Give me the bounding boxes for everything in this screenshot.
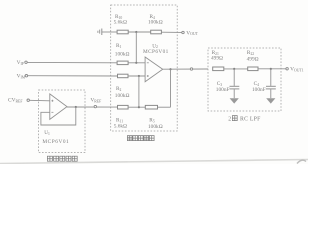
page curl artifact bottom right [297, 160, 306, 163]
resistor R4 body [151, 30, 162, 34]
wire: output junction down to bottom feedback row [170, 69, 172, 107]
svg-text:100kΩ: 100kΩ [115, 52, 130, 58]
svg-text:5.6kΩ: 5.6kΩ [114, 123, 127, 129]
svg-text:499Ω: 499Ω [247, 57, 259, 63]
op-amp U2 triangle [145, 57, 163, 82]
node: bottom row junction [138, 106, 140, 108]
resistor R1 body [117, 61, 128, 65]
node: LPF second junction [270, 68, 272, 70]
terminal: input V_IP [25, 61, 27, 63]
caption: 2阶 RC LPF [228, 116, 261, 123]
resistor R2 body [118, 74, 129, 78]
svg-text:MCP6V01: MCP6V01 [143, 49, 169, 55]
dashed box: 2nd order RC LPF stage [208, 48, 281, 111]
op-amp U1 plus mark [51, 100, 53, 102]
op-amp U2 plus mark [147, 75, 149, 77]
wire: R11 to bottom node [128, 106, 145, 108]
svg-text:R5: R5 [149, 118, 155, 124]
wire: R5 right end to feedback vertical [158, 106, 171, 108]
node: inverting input junction [135, 62, 137, 64]
node: output junction [169, 68, 171, 70]
svg-text:VIP: VIP [17, 60, 24, 66]
svg-text:MCP6V01: MCP6V01 [42, 139, 69, 145]
node: top feedback junction [135, 31, 137, 33]
wire: non-inverting node down to bottom row node [138, 76, 140, 107]
terminal: input CV_REF [27, 99, 29, 101]
caption: 缓冲放大器 (buffer amplifier) fake CJK glyph blobs [47, 156, 77, 161]
node: buffer feedback tap [75, 106, 77, 108]
terminal: input V_IM [25, 75, 27, 77]
resistor R21 body (LPF) [213, 67, 224, 71]
dashed box: buffer amplifier stage [39, 90, 86, 153]
svg-text:R2: R2 [116, 86, 122, 92]
op-amp U1 triangle (buffer) [50, 94, 67, 120]
svg-text:RC LPF: RC LPF [240, 117, 261, 123]
svg-text:2: 2 [228, 117, 231, 123]
wire: R10 to node [128, 31, 151, 33]
node: LPF first junction [233, 68, 235, 70]
terminal: output V_OUT1 [286, 68, 288, 70]
wire: R22 to output terminal [258, 68, 286, 70]
wire: node down to inverting input line [135, 32, 137, 63]
wire: ground to R10 [102, 31, 117, 33]
resistor R11 body [118, 105, 129, 109]
resistor R22 body (LPF) [248, 67, 258, 71]
svg-text:VOUT: VOUT [186, 30, 198, 36]
svg-text:100nF: 100nF [216, 87, 230, 93]
svg-text:VOUT1: VOUT1 [290, 67, 304, 73]
svg-text:U1: U1 [44, 130, 50, 136]
svg-text:5.6kΩ: 5.6kΩ [114, 19, 127, 25]
wire: R1 to op-amp inverting input [128, 62, 145, 64]
wire: V_IP input line [27, 61, 117, 63]
svg-text:100kΩ: 100kΩ [115, 93, 130, 99]
terminal: VOUT (feedback net) [182, 31, 184, 33]
svg-text:100kΩ: 100kΩ [148, 19, 163, 25]
wire: V_REF line from buffer into diff box [67, 106, 118, 108]
dashed box: difference amplifier stage [111, 5, 178, 131]
caption: 差分放大器 (differential amplifier) fake CJK glyph blobs [47, 136, 154, 162]
wire: R21 to R22 [224, 68, 248, 70]
svg-text:CVREF: CVREF [8, 97, 22, 103]
wire: R2 to op-amp non-inverting input [128, 75, 145, 77]
wire: R4 to VOUT terminal [161, 31, 181, 33]
node: non-inverting input junction [138, 75, 140, 77]
resistor R10 body [117, 30, 128, 34]
ground (filled triangle) below C3 [230, 98, 239, 103]
wire: CV_REF to buffer non-inverting input [29, 99, 49, 102]
capacitor C4 [266, 69, 276, 98]
terminal: V_REF node circle [94, 105, 96, 107]
wire: op-amp output [163, 68, 208, 70]
resistor R5 body [145, 105, 157, 109]
wire: V_IM input line [28, 75, 118, 77]
svg-text:100nF: 100nF [252, 87, 266, 93]
op-amp U2 minus mark [147, 62, 149, 64]
wire: buffer feedback loop [41, 107, 76, 125]
svg-text:R1: R1 [116, 43, 122, 49]
ground (filled triangle) below C4 [266, 98, 275, 103]
ground (sideways earth) top-left [98, 29, 102, 36]
svg-text:VREF: VREF [90, 97, 101, 103]
capacitor C3 [230, 69, 240, 98]
svg-text:VIM: VIM [17, 74, 26, 80]
svg-text:R22: R22 [247, 50, 254, 56]
op-amp U1 minus mark [51, 111, 53, 113]
svg-text:100kΩ: 100kΩ [148, 124, 163, 130]
terminal: output node circle [190, 68, 192, 70]
svg-text:499Ω: 499Ω [211, 56, 223, 62]
wire: bottom page artifact diagonal smudge [0, 160, 308, 164]
